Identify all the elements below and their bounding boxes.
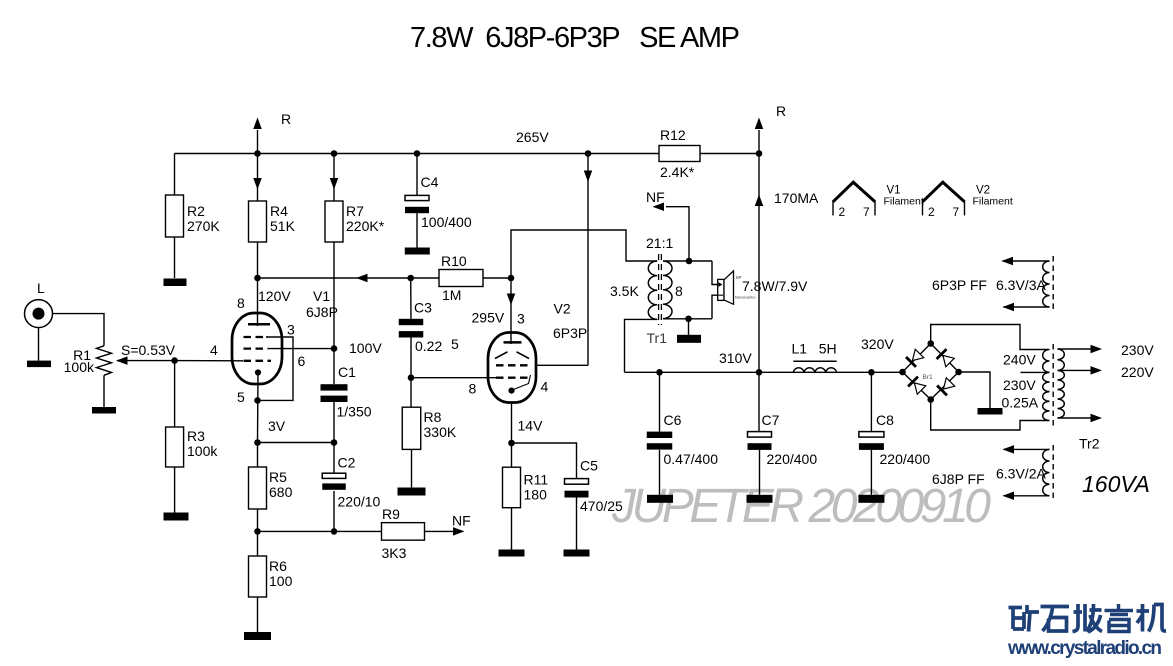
svg-text:2: 2 — [928, 205, 935, 219]
V2 plate bar — [504, 341, 522, 344]
svg-text:C1: C1 — [338, 364, 356, 380]
speaker driver — [718, 279, 724, 300]
wire R3 to ground — [174, 467, 176, 513]
svg-text:180: 180 — [524, 487, 548, 503]
wire R2 to ground — [174, 237, 176, 278]
junction dot 3V node — [254, 439, 261, 446]
ground R8 — [398, 488, 426, 496]
ground C4 — [405, 248, 430, 255]
svg-text:SP: SP — [736, 275, 742, 280]
capacitor C2 — [322, 473, 346, 478]
svg-text:8: 8 — [237, 295, 245, 311]
diode Br1 lower-right — [937, 377, 955, 395]
svg-text:120V: 120V — [258, 288, 291, 304]
svg-text:R: R — [776, 103, 786, 119]
junction dot wiper/R3 — [171, 357, 178, 364]
wire bus left end down to R2 — [174, 154, 176, 196]
svg-text:320V: 320V — [861, 336, 894, 352]
transformer Tr2 core — [1052, 344, 1054, 426]
junction dot secondary ground — [685, 316, 692, 323]
capacitor C1 — [321, 384, 348, 390]
transformer Tr1 primary winding — [648, 261, 657, 319]
speaker horn — [724, 271, 734, 304]
svg-text:Tr1: Tr1 — [647, 330, 668, 346]
wire C1 to 3V node — [333, 402, 335, 443]
resistor R7 — [325, 201, 343, 242]
wire V1 pin3 to cathode node — [258, 337, 294, 400]
svg-text:C3: C3 — [414, 300, 432, 316]
junction dot V2 plate node — [508, 275, 515, 282]
junction dot V2 grid node — [408, 374, 415, 381]
wire V1 plate node to R10 with left arrow — [258, 277, 440, 279]
svg-text:8: 8 — [675, 283, 683, 299]
svg-text:4: 4 — [210, 342, 218, 358]
svg-text:100k: 100k — [64, 359, 95, 375]
resistor R2 — [166, 195, 184, 237]
wire grid node to V2 pin 5 — [411, 377, 496, 379]
ground C8 — [858, 495, 884, 503]
wire Tr1 primary bottom lead — [625, 319, 658, 372]
junction dot R5/R6/R9 node — [254, 528, 261, 535]
svg-text:0.47/400: 0.47/400 — [664, 451, 719, 467]
svg-text:1M: 1M — [442, 287, 461, 303]
wire jack sleeve to ground — [38, 328, 40, 361]
wire R8 to ground — [411, 449, 413, 487]
svg-text:NF: NF — [452, 513, 471, 529]
svg-text:tianzocanbo: tianzocanbo — [735, 296, 755, 300]
svg-text:6J8P FF: 6J8P FF — [932, 471, 985, 487]
wire to C2 — [333, 443, 335, 474]
junction dot NF/secondary — [686, 258, 693, 265]
junction dot C3 tap — [407, 275, 414, 282]
svg-text:R5: R5 — [269, 469, 287, 485]
wire 3V node to R5 — [257, 443, 259, 468]
wire V2 plate node down to pin 3 with arrow — [510, 278, 512, 344]
svg-text:100k: 100k — [187, 443, 218, 459]
wire 100V node to C1 — [333, 349, 335, 385]
ground C7 — [747, 495, 773, 503]
svg-text:C8: C8 — [876, 412, 894, 428]
V1 filament symbol — [833, 182, 875, 202]
resistor R11 — [503, 467, 521, 508]
svg-text:5: 5 — [237, 389, 245, 405]
resistor R8 — [410, 378, 412, 408]
V2 screen grid row pin4 — [496, 364, 530, 366]
svg-text:L1 5H: L1 5H — [792, 341, 837, 357]
svg-text:7.8W 6J8P-6P3P SE AMP: 7.8W 6J8P-6P3P SE AMP — [410, 22, 740, 54]
transformer Tr2 secondary winding upper — [1058, 349, 1065, 370]
svg-text:100: 100 — [269, 573, 293, 589]
wire bridge right to ground — [959, 372, 990, 408]
svg-text:220K*: 220K* — [346, 218, 385, 234]
ground C6 — [647, 495, 673, 503]
junction dot bridge left — [899, 369, 906, 376]
V1 grid row pin4 — [244, 360, 272, 362]
wire C3 to grid node — [410, 338, 412, 378]
wire R7 down to 100V node — [333, 242, 335, 349]
svg-text:330K: 330K — [424, 424, 457, 440]
wire V1 cathode down — [257, 373, 260, 443]
svg-text:160VA: 160VA — [1082, 471, 1150, 497]
svg-text:3V: 3V — [268, 418, 286, 434]
junction dot C1/C2 node — [331, 439, 338, 446]
V1 grid row 100V — [244, 347, 269, 349]
resistor R9 — [382, 523, 425, 541]
svg-text:Filament: Filament — [973, 196, 1013, 208]
resistor R10 — [439, 270, 483, 287]
junction dot rail/C8 — [868, 369, 875, 376]
capacitor C8 with leads — [870, 372, 872, 431]
wire bus to R4 with down arrow — [257, 154, 259, 202]
junction dot 100V node — [331, 345, 338, 352]
node R rail left arrow — [257, 130, 259, 154]
junction dot rail/C6 — [656, 369, 663, 376]
connector jack L center pin — [33, 308, 45, 320]
svg-text:R4: R4 — [270, 203, 288, 219]
svg-text:www.crystalradio.cn: www.crystalradio.cn — [1007, 638, 1162, 659]
svg-text:220/400: 220/400 — [767, 451, 818, 467]
svg-text:220/400: 220/400 — [880, 451, 931, 467]
transformer Tr1 secondary winding — [663, 261, 672, 319]
wire R rail right with up arrow — [758, 130, 760, 154]
transformer Tr2 secondary winding lower — [1058, 370, 1065, 418]
svg-text:V1: V1 — [313, 288, 330, 304]
svg-text:0.22: 0.22 — [415, 338, 442, 354]
svg-text:1/350: 1/350 — [337, 404, 372, 420]
svg-text:C2: C2 — [338, 455, 356, 471]
svg-text:265V: 265V — [516, 129, 549, 145]
junction dot bridge right — [955, 369, 962, 376]
svg-text:295V: 295V — [472, 310, 505, 326]
svg-text:R10: R10 — [441, 253, 467, 269]
wire bridge bottom to Tr2 bottom tap — [931, 400, 1048, 431]
NF feedback arrow at Tr1 — [666, 207, 689, 261]
transformer Tr2 primary winding lower — [1043, 372, 1050, 420]
resistor R5 — [249, 467, 267, 509]
svg-text:3.5K: 3.5K — [610, 283, 639, 299]
svg-text:6P3P FF: 6P3P FF — [932, 277, 987, 293]
wire R10 to V2 plate node — [483, 277, 511, 279]
svg-text:C4: C4 — [421, 174, 439, 190]
svg-text:2.4K*: 2.4K* — [660, 164, 695, 180]
resistor R12 — [659, 146, 700, 162]
junction dot bus/C4 — [414, 150, 421, 157]
junction dot bus/V2 screen — [585, 150, 592, 157]
wire Tr1 secondary top to speaker — [663, 260, 712, 262]
wire 3V node to C1/C2 node — [258, 442, 335, 444]
svg-text:680: 680 — [269, 484, 293, 500]
svg-text:R9: R9 — [382, 506, 400, 522]
junction dot bus/R4 — [254, 150, 261, 157]
svg-text:170MA: 170MA — [774, 190, 819, 206]
svg-text:2: 2 — [839, 205, 846, 219]
wire C3 tap down — [410, 278, 412, 319]
V2 filament symbol — [923, 182, 965, 202]
wire 14V node to C5 — [512, 443, 577, 479]
svg-text:R7: R7 — [346, 203, 364, 219]
svg-text:270K: 270K — [187, 218, 220, 234]
wire Tr1 secondary bottom to speaker — [663, 318, 712, 320]
svg-text:21:1: 21:1 — [646, 235, 673, 251]
wire R5 to R6 node — [257, 509, 259, 556]
junction dot node 120V — [254, 275, 261, 282]
diode Br1 upper-left — [906, 349, 924, 367]
svg-text:R2: R2 — [187, 203, 205, 219]
junction dot C2/R9 node — [331, 528, 338, 535]
V2 cathode tie line — [514, 375, 531, 390]
svg-text:4: 4 — [541, 379, 549, 395]
junction dot bridge bottom — [927, 396, 934, 403]
svg-text:V2: V2 — [554, 301, 571, 317]
wire R6 to ground — [257, 597, 259, 632]
svg-text:NF: NF — [646, 189, 665, 205]
svg-text:R11: R11 — [524, 472, 549, 488]
tube V2 envelope — [488, 333, 536, 403]
svg-text:470/25: 470/25 — [580, 498, 623, 514]
diode Br1 lower-left — [908, 377, 926, 395]
inductor L1 5H — [793, 368, 836, 373]
svg-text:3: 3 — [517, 311, 525, 327]
speaker wires — [712, 261, 718, 285]
wire to R3 — [174, 361, 176, 427]
svg-text:6.3V/2A: 6.3V/2A — [996, 466, 1046, 482]
svg-text:51K: 51K — [270, 218, 296, 234]
wire R11 to ground — [511, 508, 513, 550]
svg-text:S=0.53V: S=0.53V — [121, 342, 176, 358]
svg-text:3K3: 3K3 — [382, 545, 407, 561]
V2 cathode dot — [508, 388, 514, 394]
ground R1 — [92, 407, 116, 414]
junction dot bus/R7 — [331, 150, 338, 157]
wire C4 to ground — [416, 213, 418, 247]
V2 control grid row pin5 — [496, 377, 530, 379]
Tr2 secondary 220V tap arrow — [1058, 369, 1092, 371]
bridge rectifier Br1 diamond — [903, 344, 959, 400]
svg-text:C5: C5 — [580, 458, 598, 474]
svg-text:240V: 240V — [1003, 352, 1036, 368]
wire bridge top to Tr2 240V tap — [931, 325, 1048, 350]
V1 grid row pin3 — [244, 336, 269, 338]
svg-text:R3: R3 — [187, 428, 205, 444]
inductor L1 core line — [793, 360, 836, 362]
wire R9 to NF arrow — [425, 530, 456, 532]
diode Br1 upper-right — [937, 349, 955, 367]
resistor R4 — [249, 201, 267, 242]
Tr2 230V tap wire — [1021, 371, 1049, 373]
R1 wiper arrow — [117, 360, 175, 362]
svg-text:JUPETER 20200910: JUPETER 20200910 — [611, 480, 991, 533]
transformer Tr2 6.3V/2A winding — [1004, 448, 1050, 450]
potentiometer R1 zigzag — [97, 346, 112, 376]
svg-text:R: R — [281, 111, 291, 127]
V1 plate bar — [248, 323, 270, 326]
wire C5 to ground — [576, 498, 578, 550]
ground bridge — [978, 408, 1003, 415]
ground Tr1 secondary — [677, 335, 701, 343]
junction dot pin5 — [254, 397, 261, 404]
wire bus to C4 — [416, 154, 418, 196]
svg-text:100/400: 100/400 — [421, 214, 472, 230]
resistor R6 — [249, 556, 267, 597]
svg-text:6.3V/3A: 6.3V/3A — [996, 277, 1046, 293]
wire 310V rail — [625, 371, 903, 373]
ground R11 — [499, 550, 525, 557]
ground R6 — [244, 632, 271, 640]
resistor R3 — [166, 427, 184, 467]
ground C5 — [564, 550, 590, 557]
ground jack — [27, 361, 51, 368]
junction dot bridge top — [927, 340, 934, 347]
capacitor C3 — [399, 319, 424, 325]
junction dot rail/C7/R-rail — [756, 369, 763, 376]
wire R4 to node 120V — [257, 242, 259, 278]
ground R3 — [164, 513, 189, 521]
svg-text:220/10: 220/10 — [338, 494, 381, 510]
Tr2 secondary 230V tap arrow — [1058, 348, 1092, 350]
svg-text:L: L — [37, 280, 45, 296]
Tr2 secondary bottom tap arrow — [1058, 417, 1092, 419]
svg-text:C6: C6 — [664, 412, 682, 428]
svg-text:R8: R8 — [424, 409, 442, 425]
logo crystalradio — [1009, 604, 1167, 632]
svg-text:7.8W/7.9V: 7.8W/7.9V — [742, 278, 808, 294]
capacitor C7 with leads — [758, 372, 760, 431]
capacitor C5 — [565, 479, 589, 485]
svg-text:Tr2: Tr2 — [1079, 436, 1100, 452]
svg-text:6J8P: 6J8P — [306, 304, 338, 320]
connector jack L outer circle — [25, 300, 53, 328]
svg-text:310V: 310V — [719, 350, 752, 366]
svg-text:230V: 230V — [1121, 342, 1154, 358]
svg-text:0.25A: 0.25A — [1002, 395, 1039, 411]
junction dot 14V node — [508, 440, 515, 447]
capacitor C4 — [405, 195, 429, 200]
transformer Tr2 6.3V/3A winding — [1003, 260, 1050, 262]
wire R4 node down to V1 plate pin 8 — [257, 278, 259, 326]
tube V1 envelope — [232, 313, 282, 384]
svg-text:14V: 14V — [518, 418, 544, 434]
ground R2 — [164, 279, 187, 287]
svg-text:100V: 100V — [349, 340, 382, 356]
wire R1 bottom to ground — [103, 375, 105, 407]
V1 cathode dot — [255, 369, 261, 375]
transformer Tr1 core — [658, 254, 660, 325]
wire 265V bus — [175, 153, 660, 155]
wire C2 to R9 node — [333, 491, 335, 531]
svg-text:6: 6 — [298, 353, 306, 369]
junction dot bus/R rail right — [756, 150, 763, 157]
V2 beam plates — [495, 352, 508, 359]
svg-text:8: 8 — [469, 381, 477, 397]
svg-text:C7: C7 — [762, 412, 780, 428]
svg-text:230V: 230V — [1003, 377, 1036, 393]
capacitor C6 with leads — [659, 372, 661, 431]
wire jack to R1 top — [53, 314, 105, 346]
wire rail 170MA segment — [758, 154, 760, 373]
wire V2 screen to 265V rail — [536, 364, 588, 366]
svg-text:Filament: Filament — [884, 196, 924, 208]
svg-text:7: 7 — [863, 205, 870, 219]
svg-text:Br1: Br1 — [923, 374, 934, 381]
wire wiper to V1 grid pin 4 — [175, 360, 243, 362]
svg-text:3: 3 — [287, 322, 295, 338]
transformer Tr2 primary winding upper — [1043, 350, 1050, 373]
wire V2 plate node up and over to Tr1 primary — [511, 230, 657, 278]
wire V1 row2 to 100V node — [268, 348, 334, 350]
svg-text:R6: R6 — [269, 558, 287, 574]
svg-text:R12: R12 — [660, 127, 686, 143]
wire bus to R7 with down arrow — [333, 154, 335, 202]
svg-text:7: 7 — [953, 205, 960, 219]
wire R5 node to R9 — [258, 530, 382, 532]
wire V2 cathode down — [511, 403, 513, 468]
svg-text:5: 5 — [451, 336, 459, 352]
wire secondary to ground — [688, 319, 690, 335]
svg-text:220V: 220V — [1121, 364, 1154, 380]
svg-text:6P3P: 6P3P — [553, 325, 587, 341]
